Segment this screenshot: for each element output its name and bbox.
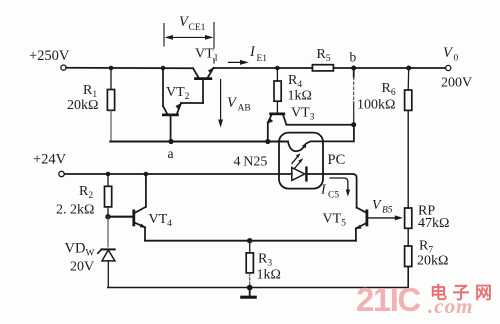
svg-text:200V: 200V — [441, 76, 472, 91]
svg-text:R6: R6 — [382, 81, 396, 98]
svg-text:0: 0 — [454, 54, 459, 64]
resistor R4 — [274, 68, 281, 113]
wire top rail left — [66, 67, 193, 69]
terminal V0 — [446, 65, 451, 70]
LED light arrows (inside PC) — [292, 153, 303, 168]
transistor VT3 — [267, 114, 286, 142]
annotation I_E1 arrow — [228, 60, 248, 65]
svg-text:VT4: VT4 — [149, 212, 173, 229]
svg-text:V: V — [227, 95, 238, 111]
optocoupler PC 4N25 body — [279, 133, 323, 189]
svg-text:a: a — [168, 146, 174, 161]
wire node-a rail — [110, 141, 288, 143]
node VT4 collector — [144, 172, 149, 177]
svg-text:1kΩ: 1kΩ — [257, 268, 281, 283]
wire to V0 terminal — [409, 67, 446, 69]
svg-text:2. 2kΩ: 2. 2kΩ — [56, 203, 94, 218]
wire LED cathode to VT5 collector — [306, 174, 356, 208]
wire emitter rail VT4-VT5 — [145, 240, 356, 242]
wire node b vertical — [353, 70, 355, 77]
transistor VT1 — [193, 67, 214, 103]
svg-text:E1: E1 — [257, 54, 268, 64]
svg-text:100kΩ: 100kΩ — [357, 98, 395, 113]
svg-text:电子网: 电子网 — [430, 283, 498, 303]
resistor R1 — [107, 68, 114, 142]
svg-text:+24V: +24V — [33, 152, 67, 168]
node VT3 collector junction — [351, 122, 356, 127]
svg-text:I: I — [320, 183, 327, 198]
node ground junction — [247, 285, 253, 291]
svg-text:I: I — [249, 44, 256, 60]
svg-text:R3: R3 — [258, 252, 272, 269]
annotation V_AB arrow — [218, 80, 223, 128]
svg-text:V: V — [372, 198, 382, 213]
terminal +250V — [61, 65, 66, 70]
svg-text:VDW: VDW — [65, 241, 95, 259]
ground — [242, 288, 255, 298]
wire top rail middle — [214, 67, 278, 69]
node b — [351, 66, 356, 71]
svg-text:20kΩ: 20kΩ — [417, 254, 448, 269]
transistor VT4 — [108, 174, 146, 241]
wire bottom rail — [108, 287, 408, 289]
potentiometer RP — [405, 208, 412, 246]
wire top rail right — [354, 67, 409, 69]
svg-text:VT5: VT5 — [323, 212, 347, 229]
svg-text:V: V — [443, 45, 454, 61]
node R4/R5 — [275, 66, 280, 71]
svg-text:C5: C5 — [328, 191, 339, 201]
terminal +24V — [59, 171, 64, 176]
svg-text:21IC: 21IC — [356, 281, 420, 318]
transistor VT5 — [355, 208, 403, 241]
annotation I_C5 arrow — [330, 178, 350, 197]
svg-text:R5: R5 — [317, 47, 331, 64]
svg-text:AB: AB — [238, 104, 251, 114]
resistor R3 — [246, 241, 253, 288]
svg-text:PC: PC — [328, 152, 346, 168]
svg-text:b: b — [350, 50, 357, 65]
wire junction down to phototransistor emitter — [311, 125, 354, 142]
node VT2 collector — [161, 66, 166, 71]
svg-text:CE1: CE1 — [189, 23, 206, 33]
svg-text:20V: 20V — [70, 260, 94, 275]
zener diode VDW — [98, 217, 115, 288]
phototransistor (inside PC) — [288, 142, 310, 151]
node R2 bottom / VT4 base / VDW — [105, 214, 110, 219]
svg-text:20kΩ: 20kΩ — [67, 98, 98, 113]
watermark 21IC.com 电子网 — [356, 281, 498, 318]
annotation V_CE1 bracket — [164, 23, 214, 64]
wire +24V rail to LED anode — [64, 173, 291, 175]
svg-text:VT3: VT3 — [291, 106, 315, 123]
svg-text:VT1: VT1 — [195, 47, 219, 64]
node R6 top — [406, 66, 411, 71]
resistor R5 — [277, 65, 353, 71]
svg-text:1kΩ: 1kΩ — [288, 89, 312, 104]
svg-text:VT2: VT2 — [166, 85, 190, 102]
svg-text:B5: B5 — [382, 206, 393, 216]
transistor VT2 — [163, 68, 203, 142]
node VT3 emitter — [265, 139, 270, 144]
resistor R7 — [405, 246, 412, 288]
node R3 top — [247, 238, 252, 243]
svg-text:R4: R4 — [288, 73, 302, 90]
node R2 top — [106, 172, 111, 177]
resistor R2 — [105, 174, 112, 217]
svg-text:R2: R2 — [79, 184, 93, 201]
LED diode (inside PC) — [292, 168, 307, 181]
node R1 top — [109, 66, 114, 71]
svg-text:+250V: +250V — [29, 48, 70, 64]
node a — [168, 139, 173, 144]
resistor R6 — [405, 68, 412, 208]
svg-text:47kΩ: 47kΩ — [418, 216, 449, 231]
wire VT3 collector to b-line — [286, 124, 353, 126]
svg-text:4 N25: 4 N25 — [234, 155, 268, 170]
